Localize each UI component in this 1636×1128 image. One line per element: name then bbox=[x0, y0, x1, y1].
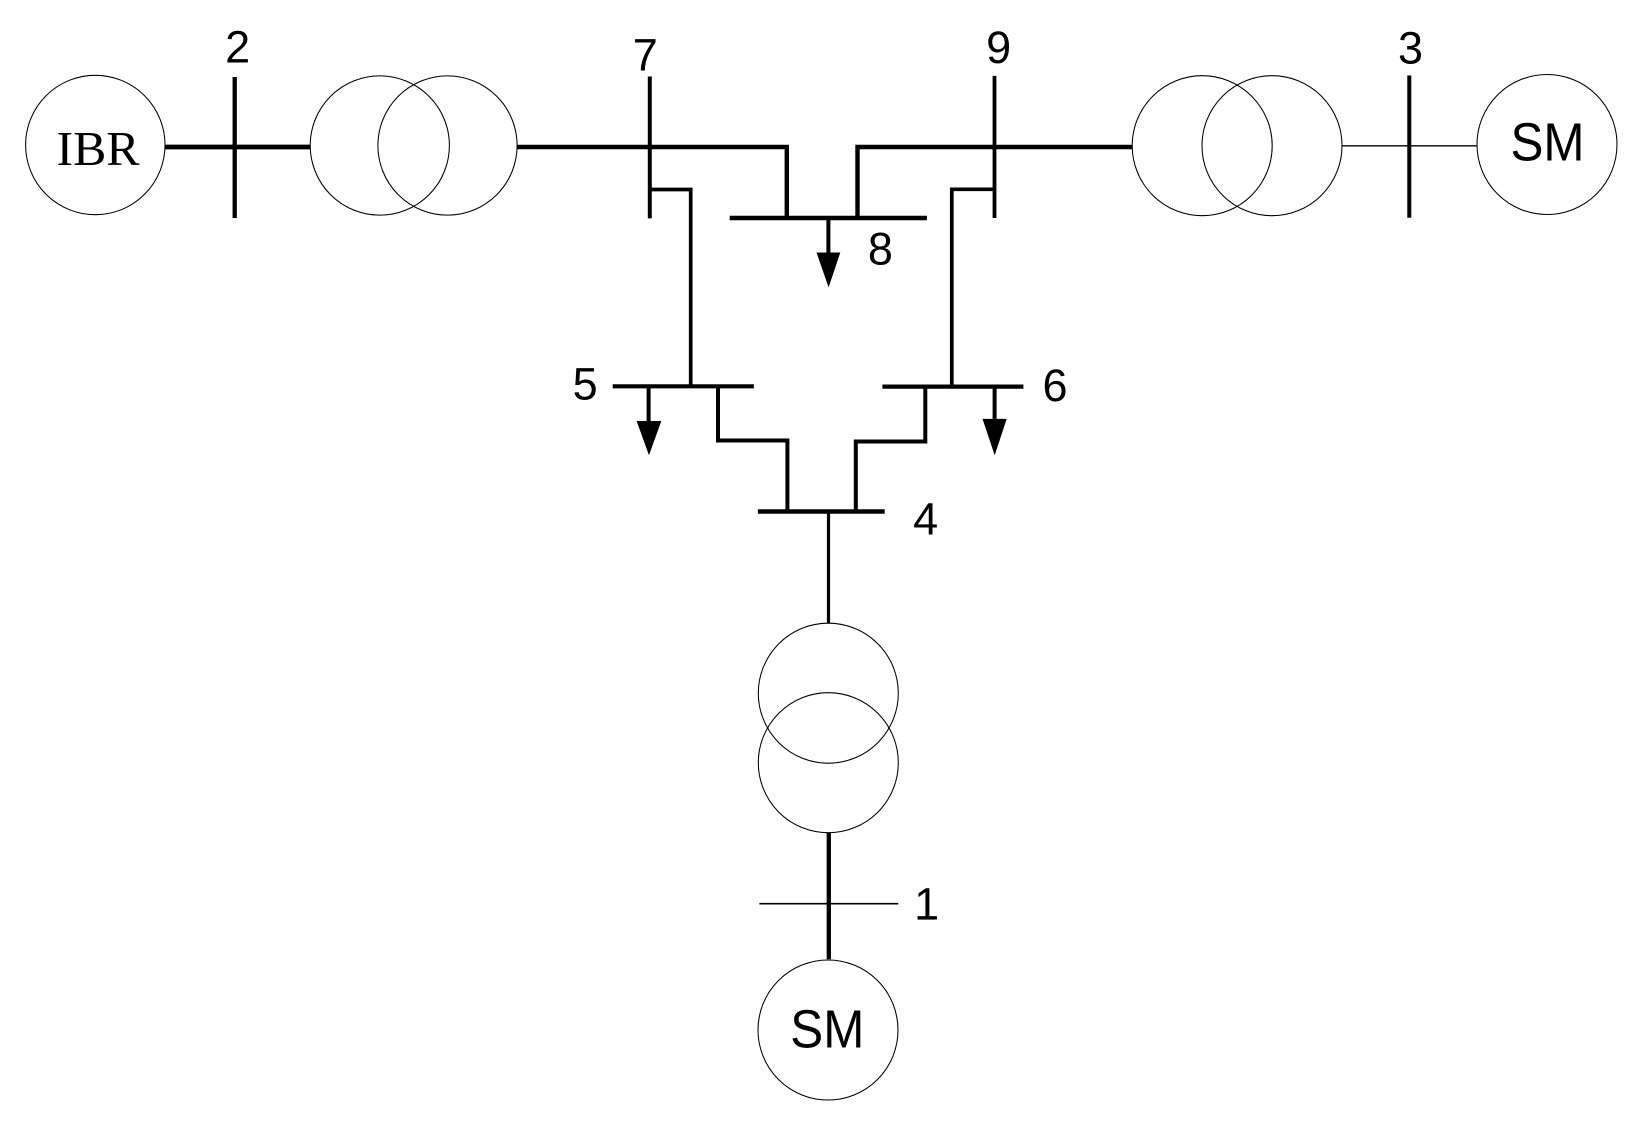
svg-text:1: 1 bbox=[914, 879, 939, 930]
svg-text:8: 8 bbox=[868, 223, 893, 274]
svg-text:2: 2 bbox=[225, 21, 250, 72]
svg-text:SM: SM bbox=[1511, 113, 1585, 173]
svg-text:SM: SM bbox=[790, 1000, 864, 1060]
svg-text:6: 6 bbox=[1042, 360, 1067, 411]
svg-text:5: 5 bbox=[573, 359, 598, 410]
svg-text:4: 4 bbox=[913, 493, 938, 544]
svg-text:9: 9 bbox=[986, 22, 1011, 73]
svg-text:IBR: IBR bbox=[57, 121, 140, 176]
svg-text:3: 3 bbox=[1398, 22, 1423, 73]
svg-text:7: 7 bbox=[633, 30, 658, 81]
